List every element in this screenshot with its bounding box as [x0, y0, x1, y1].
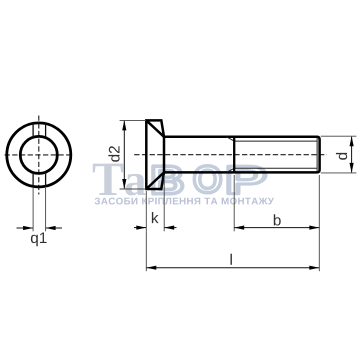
k dimension arrow left [134, 227, 146, 229]
l label [231, 254, 232, 265]
k dimension arrow right [165, 227, 177, 229]
q1 dimension arrow left [17, 227, 33, 229]
l extension line left [145, 231, 147, 271]
watermark caption line [95, 198, 274, 205]
bolt head outline [146, 120, 164, 189]
q1 label [31, 233, 47, 247]
head cone edge top [146, 120, 164, 136]
d extension lines [321, 136, 357, 173]
thread start line [233, 137, 235, 173]
b dimension line [234, 227, 319, 229]
l and b extension line right [318, 175, 320, 271]
front view vertical centerline [38, 116, 40, 195]
thread minor diameter lines [234, 141, 317, 168]
d2 label [108, 146, 119, 162]
l dimension line [146, 267, 319, 269]
bolt shank outline [164, 137, 320, 173]
d2 dimension line [123, 121, 125, 188]
watermark logo letter R hollow [229, 166, 265, 194]
d dimension line [351, 137, 353, 173]
front view inner circle shank d [20, 136, 57, 173]
q1 dimension arrow right [46, 227, 62, 229]
nib lines bottom [33, 172, 46, 187]
thread runout diagonals [226, 137, 234, 173]
q1 extension lines [33, 188, 46, 231]
b label [274, 214, 281, 225]
front view outer circle head d2 [7, 123, 71, 187]
d2 extension lines [120, 120, 146, 189]
watermark logo letter O hollow [194, 166, 220, 193]
side view centerline [134, 154, 327, 156]
k extension line left [145, 191, 147, 231]
k label [152, 212, 159, 223]
k extension line right [163, 175, 165, 231]
front view horizontal centerline [5, 154, 74, 156]
thread end chamfer line [316, 138, 318, 172]
watermark logo letter a [125, 174, 145, 196]
b extension line left [233, 175, 235, 231]
watermark logo letter V hollow [153, 166, 182, 194]
watermark logo letter T [93, 164, 124, 195]
head cone edge bottom [146, 172, 164, 189]
nib lines top [33, 123, 46, 138]
d label [336, 153, 347, 160]
